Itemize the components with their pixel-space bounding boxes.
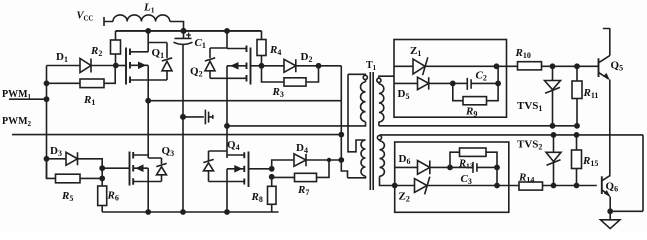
resistor R1 [47,66,116,108]
zener Z1 [394,45,497,75]
resistor R15 [572,135,599,186]
diode D4 [272,142,342,169]
transistor Q2 (MOSFET mirrored) [190,31,262,158]
inductor L1 [113,2,170,22]
resistor R5 [47,159,103,203]
box TVS2 network [395,142,509,212]
zener body diode of Q3 [148,158,167,182]
ground [601,211,620,228]
node dot R15 bottom [574,183,580,189]
node dot TVS1 top [550,63,556,69]
node dot D2/R3 right [316,63,322,69]
node dot C1 bypass tap [180,114,186,120]
node dot R7/R8 [269,174,275,180]
resistor R9 [453,83,498,118]
node dot rail/Q3 source [145,209,151,215]
wire midpoint A rail [148,100,341,102]
TVS1 diode [517,66,561,126]
wire left input vertical [46,66,48,179]
resistor R8 [251,177,277,212]
node dot R5/R6 [99,176,105,182]
diode D1 [47,51,116,73]
wire bottom rail [102,211,278,213]
node dot D4 line end [338,157,344,163]
Vcc supply terminal [77,11,114,27]
capacitor bypass (small) [183,110,213,125]
primary winding bottom [348,140,366,178]
node dot rail/C1 bottom [180,209,186,215]
resistor R10 [497,47,599,70]
transformer T1 [224,60,395,190]
capacitor C2 [453,70,498,90]
zener body diode of Q2 [205,48,227,78]
resistor R6 [98,186,119,212]
wire primary feed vertical [341,66,347,178]
resistor R13 [450,148,497,171]
node dot Z2 line junction [494,183,500,189]
transistor Q1 (MOSFET) [126,31,164,158]
primary winding top [348,74,367,152]
node dot secondary2 return / box edge [392,183,398,189]
wire top supply rail [116,30,262,32]
wire gate Q1 [116,65,126,67]
transistor Q3 (MOSFET) [102,145,174,212]
wire output return loop [610,135,643,211]
wire primary top bottom-lead to midpoint B [227,122,366,126]
resistor R3 [262,66,319,99]
node dot D6/R13/C3 left [447,165,453,171]
capacitor C3 [450,162,497,186]
wire L1 to top rail [170,22,184,31]
zener Z2 [395,177,519,204]
capacitor C1 [174,31,206,212]
zener body diode of Q1 [148,43,172,81]
node dot bridge midpoint A [145,98,151,104]
box TVS1 network [394,40,507,118]
node dot R4/D2/R3/Q2 gate [259,63,265,69]
diode D3 [47,145,103,186]
transistor Q6 [602,175,618,211]
node dot rail/Q4 source [224,209,230,215]
node dot Z1 line junction [494,63,500,69]
node dot rail/Q2 drain [224,28,230,34]
node dot R11 bottom [574,123,580,129]
core [370,72,373,190]
resistor R11 [572,66,598,126]
transistor Q5 [599,29,624,177]
zener body diode of Q4 [203,151,227,182]
node dot TVS1 bottom [550,123,556,129]
diode D5 [394,77,453,101]
resistor R14 [518,172,597,191]
secondary winding bottom [377,135,394,186]
node dot Q4 gate [269,166,275,172]
node dot D3 left [44,156,50,162]
node dot PWM2 end [338,132,344,138]
wire D6 junction vertical [496,167,498,185]
node dot D1/R1/R2/gate [113,63,119,69]
node dot rail/C1 [181,28,187,34]
node dot D5/C2/R9 left [450,81,456,87]
node dot TVS2 top [551,132,557,138]
node dot TVS2 bottom [551,183,557,189]
resistor R7 [272,160,329,197]
node dot emitter/ground [607,208,613,214]
node dot R15 top [574,132,580,138]
secondary winding top [377,76,394,126]
wire secondary bottom upper lead rail [380,134,644,136]
diode D2 [262,51,342,72]
transistor Q4 (MOSFET mirrored) [227,139,272,212]
node dot C2/R9 right [495,81,501,87]
node dot R1 left [44,80,50,86]
TVS2 diode [517,135,561,186]
PWM1 input [2,89,47,101]
PWM2 input [2,116,341,135]
node dot Q3 gate [99,165,105,171]
wire Z1 junction vertical [497,66,499,83]
node dot PWM1 [44,96,50,102]
node dot midpoint B [224,123,230,129]
node dot D4/R7 right [327,158,331,162]
node dot R11 top [574,63,580,69]
node dot rail/Q1 drain [145,28,151,34]
resistor R2 [90,31,121,66]
resistor R4 [257,31,281,66]
svg-text:PWM2: PWM2 [2,116,32,128]
node dot C3/R13 right [494,165,500,171]
wire secondary top lower lead rail [379,125,577,127]
diode D6 [395,153,450,174]
